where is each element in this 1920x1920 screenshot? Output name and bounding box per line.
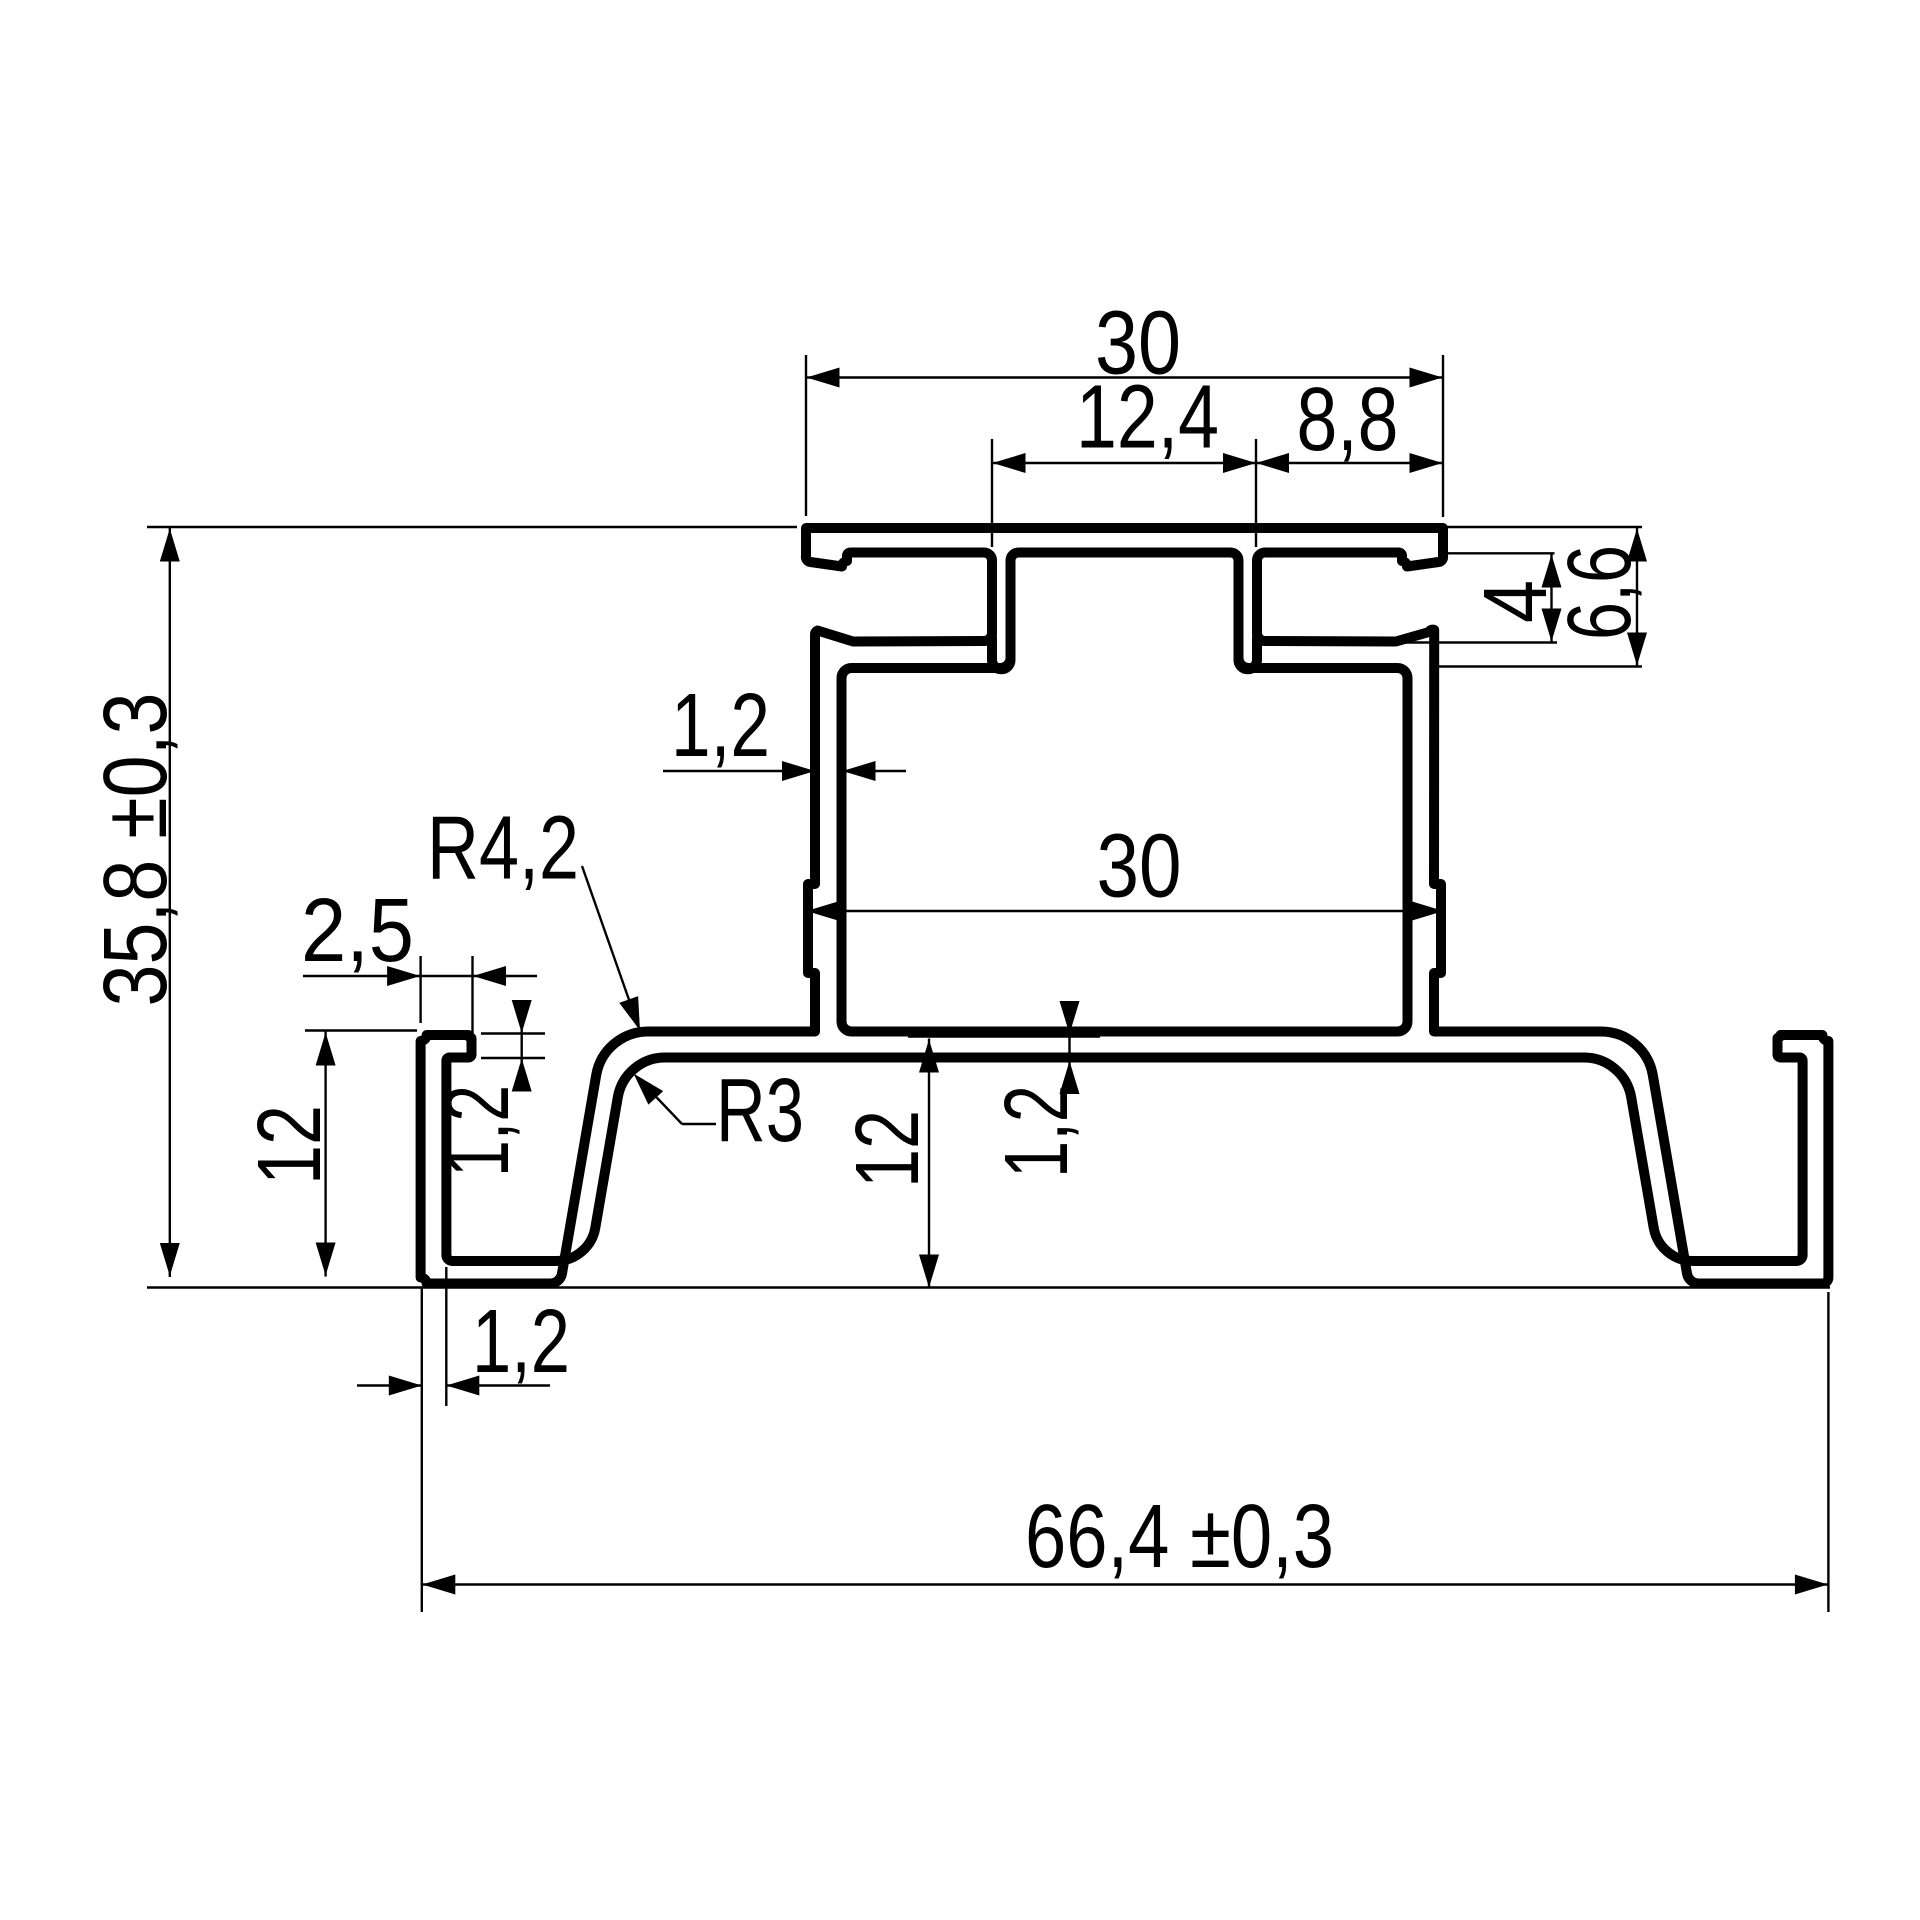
svg-text:35,8 ±0,3: 35,8 ±0,3 <box>86 693 186 1007</box>
profile stem wall tips inside box <box>992 600 1257 669</box>
svg-text:1,2: 1,2 <box>987 1085 1087 1178</box>
svg-text:1,2: 1,2 <box>428 1085 528 1177</box>
dimension 35,8 +-0,3 (overall height) <box>86 527 1830 1288</box>
dimension 12 (web height, middle) <box>838 1039 939 1289</box>
svg-text:8,8: 8,8 <box>1297 370 1399 470</box>
svg-text:12,4: 12,4 <box>1076 368 1219 468</box>
profile outline: extrusion cross-section outer contour <box>421 528 1829 1284</box>
dimension 30 (top cap width) <box>806 294 1443 518</box>
dimension 30 (box width at notches) <box>807 817 1444 922</box>
dimension 66,4 +-0,3 (overall width) <box>422 1292 1829 1612</box>
reference line web top, middle dims <box>908 1035 1100 1037</box>
dimension 12 (left channel height) <box>240 1031 417 1277</box>
svg-text:30: 30 <box>1097 817 1182 917</box>
dimension 4 (pocket height) <box>1402 553 1566 642</box>
radius label R3 with leader <box>634 1061 805 1161</box>
svg-text:1,2: 1,2 <box>671 676 770 776</box>
dimension 6,6 (cap depth) <box>1438 527 1650 667</box>
svg-text:2,5: 2,5 <box>301 881 414 981</box>
dimension 1,2 (lip thickness, rotated) <box>428 1000 545 1177</box>
svg-text:6,6: 6,6 <box>1550 545 1650 640</box>
profile box cavity: ceilings, inner walls, floor, cap underside <box>842 553 1408 1032</box>
svg-text:R4,2: R4,2 <box>427 799 579 899</box>
dimension 12,4 (stem outer width) <box>992 368 1443 548</box>
svg-text:R3: R3 <box>716 1061 804 1161</box>
dimension 1,2 (box wall thickness) <box>663 676 906 781</box>
dimension 2,5 (channel lip) <box>301 881 537 1050</box>
svg-text:12: 12 <box>838 1110 938 1188</box>
radius label R4,2 with leader <box>427 799 640 1031</box>
svg-text:66,4 ±0,3: 66,4 ±0,3 <box>1025 1487 1334 1587</box>
svg-text:12: 12 <box>240 1105 340 1185</box>
dimension 1,2 (channel wall thickness, bottom) <box>357 1267 570 1612</box>
svg-text:1,2: 1,2 <box>472 1292 570 1392</box>
dimension 8,8 (cap overhang) <box>1256 370 1443 473</box>
dimension 1,2 (web thickness, middle) <box>987 1001 1087 1178</box>
